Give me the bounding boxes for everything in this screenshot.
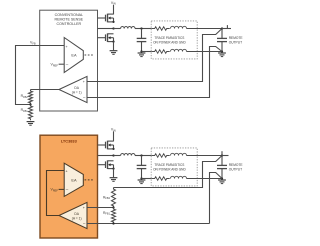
dashed box trace parasitics	[151, 148, 197, 186]
wire DA- input / RFB1 bottom rail	[87, 223, 210, 225]
capacitor C1 local	[137, 29, 147, 52]
wire L to C	[135, 155, 151, 157]
node VREF label bottom	[50, 188, 64, 193]
wire power trace out	[187, 28, 223, 30]
ground (local gnd at C)	[138, 53, 146, 57]
ground (below RFB1)	[27, 122, 35, 126]
wire sense+ top	[87, 29, 222, 82]
ground (remote gnd symbol)	[218, 180, 226, 184]
wire sense- top	[87, 47, 222, 98]
ground (power stage)	[110, 51, 118, 55]
svg-text:+: +	[83, 80, 85, 84]
inductor L2	[121, 154, 135, 156]
wire sense+ bottom	[114, 156, 223, 188]
controller box U1	[40, 10, 98, 111]
IC box LTC3833	[40, 135, 98, 238]
inductor parasitic L power	[171, 26, 187, 28]
svg-text:ON POWER AND GND: ON POWER AND GND	[153, 40, 186, 44]
op-amp DA bottom A=1	[59, 202, 87, 228]
wire remote out stub	[222, 151, 229, 155]
resistor parasitic R power	[151, 27, 170, 31]
transistor M3 high-side	[98, 141, 115, 150]
transistor M4 low-side	[98, 160, 115, 169]
svg-text:RFB2: RFB2	[21, 94, 29, 99]
capacitor C4 remote	[217, 156, 227, 179]
inductor L1	[121, 27, 135, 29]
wire gnd trace out	[187, 178, 223, 180]
wire EA output dashed	[85, 54, 94, 56]
resistor RFB2 bottom	[103, 188, 116, 208]
svg-text:REMOTE: REMOTE	[229, 36, 244, 40]
wire feedback DA out to EA+	[47, 171, 65, 216]
wire M2 source to gnd	[113, 169, 115, 178]
svg-text:RFB1: RFB1	[21, 108, 29, 113]
wire gnd trace lead	[142, 178, 152, 180]
inductor parasitic L power	[171, 153, 187, 155]
ground (remote gnd symbol)	[218, 53, 226, 57]
node RFB1 bottom junction	[112, 222, 114, 224]
node C gnd junction	[140, 50, 142, 52]
capacitor C3 local	[137, 156, 147, 179]
label REMOTE OUTPUT	[229, 36, 244, 44]
wire SW to L	[114, 28, 121, 30]
wire gnd trace out	[187, 51, 223, 53]
wire M2 source to gnd	[113, 42, 115, 51]
node divider junction bottom	[112, 206, 114, 208]
resistor RFB1 bottom	[103, 208, 116, 224]
wire VFB to EA+	[16, 46, 65, 105]
wire DA+ input bottom	[87, 207, 114, 209]
svg-text:ON POWER AND GND: ON POWER AND GND	[153, 167, 186, 171]
wire SW to L	[114, 155, 121, 157]
node C top junction	[140, 154, 142, 156]
label CONVENTIONAL REMOTE SENSE CONTROLLER	[55, 13, 84, 26]
node C gnd junction	[140, 177, 142, 179]
svg-text:CONTROLLER: CONTROLLER	[57, 22, 82, 26]
svg-text:EA: EA	[71, 178, 77, 183]
op-amp DA top A=1	[59, 76, 87, 102]
svg-text:DA: DA	[74, 212, 79, 216]
op-amp EA top	[64, 38, 83, 73]
svg-text:(A = 1): (A = 1)	[72, 216, 82, 220]
svg-text:REMOTE: REMOTE	[229, 163, 244, 167]
svg-text:RFB2: RFB2	[103, 195, 111, 200]
resistor parasitic R gnd	[151, 50, 170, 54]
node VFB divider junction	[29, 103, 31, 105]
node SW junction	[112, 154, 114, 156]
wire DA output to divider	[31, 89, 60, 91]
wire SW	[98, 155, 114, 157]
transistor M2 low-side	[98, 33, 115, 42]
node VIN	[111, 128, 116, 142]
ground (power stage)	[110, 178, 118, 182]
svg-text:CONVENTIONAL: CONVENTIONAL	[55, 13, 83, 17]
svg-text:(A = 1): (A = 1)	[72, 90, 82, 94]
svg-text:LTC3833: LTC3833	[61, 139, 78, 144]
svg-text:EA: EA	[71, 53, 77, 58]
node VIN	[111, 1, 116, 15]
resistor parasitic R gnd	[151, 177, 170, 181]
svg-text:DA: DA	[74, 86, 79, 90]
node VFB label	[30, 41, 36, 46]
inductor parasitic L gnd	[171, 49, 187, 51]
wire L to C	[135, 28, 151, 30]
node remote gnd	[221, 177, 223, 179]
node C top junction	[140, 27, 142, 29]
resistor RFB2 top	[21, 90, 33, 105]
wire SW	[98, 28, 114, 30]
node SW junction	[112, 27, 114, 29]
node VREF label	[50, 63, 64, 68]
op-amp EA bottom	[64, 163, 83, 196]
dashed box trace parasitics	[151, 21, 197, 59]
node remote out+	[221, 27, 223, 29]
wire sense- bottom	[210, 173, 223, 224]
svg-text:REMOTE SENSE: REMOTE SENSE	[55, 18, 84, 22]
resistor RFB1 top	[21, 105, 33, 121]
resistor parasitic R power	[151, 154, 170, 158]
wire EA output dashed bottom	[85, 179, 94, 181]
svg-text:OUTPUT: OUTPUT	[229, 40, 242, 44]
transistor M1 high-side	[98, 14, 115, 23]
svg-text:+: +	[83, 206, 85, 210]
node remote out+	[221, 154, 223, 156]
label REMOTE OUTPUT	[229, 163, 244, 171]
wire remote out stub	[222, 25, 231, 28]
svg-text:RFB1: RFB1	[103, 211, 111, 216]
svg-text:OUTPUT: OUTPUT	[229, 167, 242, 171]
svg-text:VFB: VFB	[30, 41, 36, 46]
wire gnd trace lead	[142, 51, 152, 53]
wire power trace out	[187, 155, 223, 157]
node remote gnd	[221, 50, 223, 52]
capacitor C2 remote	[217, 29, 227, 52]
inductor parasitic L gnd	[171, 176, 187, 178]
ground (local gnd at C)	[138, 180, 146, 184]
